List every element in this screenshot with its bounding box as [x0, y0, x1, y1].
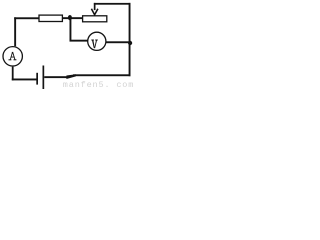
- wire battery right horizontal: [44, 76, 67, 78]
- wire voltmeter right horizontal: [106, 41, 130, 43]
- battery right plate: [43, 66, 45, 90]
- voltmeter V circle: [88, 32, 106, 50]
- resistor R (fixed): [39, 15, 62, 21]
- svg-text:manfen5. com: manfen5. com: [63, 80, 134, 89]
- wire top middle (resistor to rheostat): [62, 17, 82, 19]
- node dot left (junction): [68, 15, 72, 20]
- wire left vertical: [14, 17, 16, 46]
- wire right vertical: [129, 3, 131, 76]
- wire top-right horizontal: [94, 3, 131, 5]
- node dot right (junction): [128, 41, 132, 45]
- wire voltmeter left horizontal: [70, 40, 88, 42]
- wire top-left horizontal: [14, 17, 39, 19]
- wire ammeter bottom vertical: [12, 67, 14, 81]
- wire bottom step diagonal: [66, 74, 76, 79]
- voltmeter label V: [91, 40, 97, 49]
- wire slider stem vertical: [94, 3, 96, 10]
- rheostat body: [83, 16, 107, 22]
- battery left plate: [36, 73, 38, 85]
- ammeter label A: [9, 52, 17, 60]
- wire bottom-right horizontal: [73, 74, 131, 76]
- rheostat slider arrowhead: [91, 9, 98, 15]
- wire node-to-voltmeter vertical: [70, 18, 72, 42]
- ammeter A circle: [3, 47, 22, 66]
- wire bottom-left horizontal: [12, 79, 37, 81]
